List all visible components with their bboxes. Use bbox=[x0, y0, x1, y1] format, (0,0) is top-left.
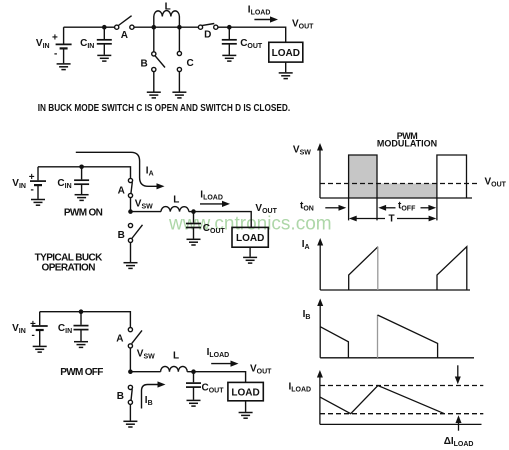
wire inductor to COUT node to VOUT corner (bot) bbox=[187, 372, 245, 383]
svg-text:A: A bbox=[121, 30, 128, 41]
VSW baseline bbox=[320, 197, 472, 199]
LOAD box (mid) bbox=[232, 227, 268, 247]
wire node to corner and down to switch A (bot) bbox=[81, 312, 130, 328]
delta top arrowhead (down) bbox=[455, 377, 461, 385]
tOFF right arrow line bbox=[421, 207, 430, 209]
ground (mid COUT) bbox=[187, 239, 201, 245]
ground (bot LOAD) bbox=[239, 413, 253, 419]
node COUT (bot) bbox=[191, 369, 196, 374]
IA baseline bbox=[320, 289, 470, 291]
svg-text:PWM ON: PWM ON bbox=[64, 208, 103, 219]
capacitor C_IN (mid) bbox=[74, 167, 89, 194]
wire node to VOUT corner and LOAD bbox=[229, 27, 285, 42]
pulse 1 outline bbox=[349, 155, 377, 198]
T arrow line right bbox=[397, 218, 430, 220]
junction dots (bot circuit) bbox=[79, 309, 196, 374]
pulse 2 outline bbox=[437, 155, 467, 198]
ground (bot switch B) bbox=[123, 421, 137, 427]
ground (switch C top) bbox=[172, 92, 186, 98]
ground (bot battery) bbox=[33, 346, 47, 352]
wire node to switch A bbox=[104, 26, 114, 28]
wire node to switch D bbox=[179, 26, 198, 28]
switch C (top, open, no blade) bbox=[177, 27, 181, 91]
delta arrow top line bbox=[457, 365, 459, 377]
svg-text:LOAD: LOAD bbox=[236, 233, 264, 244]
delta bottom arrowhead (up) bbox=[456, 415, 462, 423]
svg-text:LOAD: LOAD bbox=[231, 388, 259, 399]
VSW axis vertical bbox=[319, 150, 321, 199]
svg-text:B: B bbox=[118, 230, 125, 241]
wire switch A to inductor node bbox=[134, 26, 154, 28]
svg-text:+: + bbox=[52, 33, 58, 44]
svg-text:C: C bbox=[187, 58, 194, 69]
ground (bot CIN) bbox=[74, 342, 88, 348]
ground (mid CIN) bbox=[75, 195, 89, 201]
IB axis arrowhead bbox=[317, 299, 323, 307]
tick pulse1 end bbox=[376, 198, 378, 220]
capacitor C_OUT (top) bbox=[222, 27, 237, 55]
T arrow line left bbox=[356, 218, 386, 220]
svg-text:PWM OFF: PWM OFF bbox=[60, 367, 103, 378]
svg-text:MODULATION: MODULATION bbox=[377, 139, 437, 149]
switch B (top, open) bbox=[152, 27, 165, 91]
ILOAD arrow (top) bbox=[254, 19, 270, 21]
node CIN (top) bbox=[102, 25, 107, 30]
wire battery to CIN node bbox=[64, 26, 105, 28]
tOFF left arrowhead bbox=[378, 205, 386, 211]
capacitor C_IN (top) bbox=[97, 27, 112, 55]
ILOAD arrow (bot) bbox=[211, 363, 231, 365]
svg-text:-: - bbox=[32, 330, 35, 341]
tON arrowhead bbox=[339, 205, 347, 211]
IA hook arrow (mid) bbox=[76, 152, 157, 186]
wire VSW node right to inductor (bot) bbox=[130, 371, 160, 373]
tOFF left arrow line bbox=[386, 207, 396, 209]
node L-left (top) bbox=[152, 25, 157, 30]
node CIN (bot) bbox=[79, 309, 84, 314]
IA ramp 2 bbox=[437, 247, 467, 290]
ILOAD arrowhead (bot) bbox=[231, 361, 239, 367]
ILOAD ripple wave bbox=[320, 386, 444, 414]
ILOAD arrow (mid) bbox=[200, 203, 223, 205]
ILOAD arrowhead (mid) bbox=[222, 201, 230, 207]
ground (mid switch B) bbox=[124, 263, 138, 269]
wire between inductor nodes bbox=[154, 26, 180, 28]
wire LOAD to ground (top) bbox=[285, 62, 287, 72]
ground (switch B top) bbox=[147, 92, 161, 98]
delta arrow bottom line bbox=[458, 423, 460, 431]
switch B (mid, open) bbox=[128, 223, 142, 262]
IB rise 2 (gray) bbox=[377, 315, 379, 358]
ground (top battery) bbox=[57, 64, 71, 70]
battery V_IN (mid) bbox=[30, 167, 46, 199]
capacitor C_OUT (mid) bbox=[186, 212, 201, 239]
gray fill pulse 1 bbox=[349, 155, 377, 198]
capacitor C_IN (bot) bbox=[74, 312, 89, 341]
LOAD box (bot) bbox=[228, 382, 263, 400]
IB hook arrowhead (bot) bbox=[158, 381, 166, 387]
svg-text:A: A bbox=[118, 185, 125, 196]
ILOAD baseline bbox=[320, 423, 482, 425]
wire VSW node right to inductor (mid) bbox=[131, 211, 162, 213]
dashed VOUT level bbox=[320, 183, 480, 185]
capacitor C_OUT (bot) bbox=[186, 372, 201, 400]
ground (top LOAD) bbox=[279, 73, 293, 79]
ground (mid LOAD) bbox=[243, 257, 257, 263]
ground (mid battery) bbox=[31, 200, 45, 206]
junction dots (mid circuit) bbox=[79, 165, 196, 214]
node VSW (bot) bbox=[128, 369, 133, 374]
IA hook arrowhead (mid) bbox=[157, 183, 165, 189]
dashed top level bbox=[320, 385, 483, 387]
tick pulse1 start bbox=[348, 198, 350, 220]
LOAD box (top) bbox=[269, 42, 303, 62]
switch A (mid, closed) bbox=[128, 178, 132, 209]
ground (top CIN) bbox=[97, 55, 111, 61]
IA ramp 1 drop (gray) bbox=[377, 247, 379, 290]
svg-text:-: - bbox=[31, 185, 34, 196]
T left arrowhead bbox=[349, 216, 357, 222]
svg-text:A: A bbox=[116, 333, 123, 344]
dashed bottom level bbox=[320, 413, 483, 415]
switch A (top, open) bbox=[115, 16, 134, 30]
switch A (bot, open) bbox=[128, 328, 142, 370]
VSW axis arrowhead bbox=[317, 143, 323, 151]
svg-text:-: - bbox=[54, 49, 57, 60]
node COUT (mid) bbox=[191, 209, 196, 214]
IA ramp 1 bbox=[349, 247, 378, 290]
battery V_IN (top) bbox=[56, 27, 72, 63]
IB axis vertical bbox=[319, 305, 321, 358]
svg-text:+: + bbox=[29, 172, 35, 183]
tick pulse2 start bbox=[436, 198, 438, 220]
ILOAD axis arrowhead bbox=[317, 370, 323, 378]
wire battery to CIN node (mid) bbox=[38, 166, 82, 168]
svg-text:OPERATION: OPERATION bbox=[42, 262, 96, 273]
wire inductor to COUT node to VOUT corner (mid) bbox=[189, 212, 251, 228]
svg-text:LOAD: LOAD bbox=[272, 48, 300, 59]
IB decay 2 bbox=[378, 315, 438, 358]
tON arrow line bbox=[325, 207, 339, 209]
junction dots (top circuit) bbox=[102, 25, 232, 30]
switch D (top, closed) bbox=[198, 24, 218, 30]
svg-text:T: T bbox=[389, 214, 395, 225]
wire switch D to COUT node bbox=[218, 26, 229, 28]
node CIN (mid) bbox=[79, 165, 84, 170]
svg-text:B: B bbox=[141, 59, 148, 70]
node COUT (top) bbox=[227, 25, 232, 30]
ground (bot COUT) bbox=[187, 400, 201, 406]
wire LOAD to ground (bot) bbox=[245, 401, 247, 412]
tOFF right arrowhead bbox=[428, 205, 436, 211]
wire node to corner and down to switch A (mid) bbox=[82, 167, 131, 179]
IB decay 1 bbox=[320, 327, 348, 358]
wire LOAD to ground (mid) bbox=[249, 247, 251, 257]
svg-text:IN BUCK MODE SWITCH C IS OPEN: IN BUCK MODE SWITCH C IS OPEN AND SWITCH… bbox=[38, 102, 290, 113]
battery V_IN (bot) bbox=[32, 312, 48, 346]
svg-text:L: L bbox=[173, 350, 179, 361]
svg-text:L: L bbox=[173, 195, 179, 206]
inductor L (top) bbox=[154, 11, 180, 28]
inductor L (mid) bbox=[161, 207, 189, 212]
ILOAD axis vertical bbox=[319, 377, 321, 425]
svg-text:L: L bbox=[165, 2, 171, 13]
svg-text:B: B bbox=[117, 391, 124, 402]
switch B (bot, closed) bbox=[128, 385, 132, 420]
IA axis vertical bbox=[319, 245, 321, 291]
IB hook arrow (bot) bbox=[142, 385, 159, 409]
caption: IN BUCK MODE ... bbox=[38, 102, 290, 113]
node L-right (top) bbox=[177, 25, 182, 30]
wire battery to CIN node (bot) bbox=[40, 311, 81, 313]
ILOAD arrowhead (top) bbox=[270, 16, 278, 22]
node VSW (mid) bbox=[128, 209, 133, 214]
IB baseline bbox=[320, 357, 474, 359]
ground (top COUT) bbox=[222, 55, 236, 61]
svg-text:D: D bbox=[204, 30, 211, 41]
gray fill low segment bbox=[377, 184, 437, 199]
svg-text:+: + bbox=[30, 319, 36, 330]
IA axis arrowhead bbox=[317, 238, 323, 246]
T right arrowhead bbox=[429, 216, 437, 222]
inductor L (bot) bbox=[161, 366, 188, 371]
